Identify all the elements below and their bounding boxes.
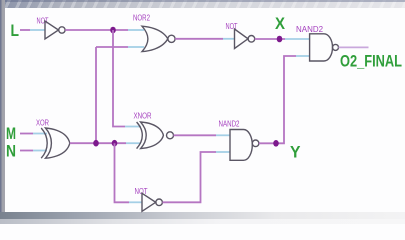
pin stub NAND2 mid top input [216,134,230,136]
svg-text:NAND2: NAND2 [219,119,240,129]
pin stub NAND2 mid bottom input [216,151,230,153]
window left strip [0,0,5,213]
svg-text:NOT: NOT [37,16,49,26]
wire NOR2 out to NOT U3 [175,38,223,40]
xor gate U4 (XOR) leading arc [41,128,47,158]
pin stub NOR2 bottom input [128,46,144,48]
wire node A: U1 out to NOR2 [65,29,128,31]
junction node B2 [112,140,118,147]
window bottom band [0,212,405,219]
svg-text:X: X [275,15,285,33]
pin stub U7 bottom input [296,55,310,57]
wire node Y: U5m out [259,56,296,143]
inverter U6 (NOT bottom) [142,193,156,211]
svg-text:L: L [11,22,20,40]
junction node X [277,36,283,43]
nand gate U7 (NAND2 output) [310,34,333,61]
xor gate U4 body [46,128,70,158]
pin stub XOR top input [33,133,47,135]
svg-text:XNOR: XNOR [134,111,152,121]
svg-text:NOT: NOT [135,186,148,196]
wire node X: U3 out to NAND2 U7 [255,38,285,40]
wire U6 out up to NAND2 mid bottom input [162,152,216,202]
svg-text:NAND2: NAND2 [296,24,323,34]
pin stub U1 input [30,29,45,31]
pin stub XNOR bottom input [126,142,141,144]
svg-text:XOR: XOR [36,118,49,128]
junction node Y [273,140,279,147]
wire NOR2 bottom input from node B [96,46,128,48]
svg-text:O2_FINAL: O2_FINAL [340,53,402,71]
wire node B: XOR out to XNOR [70,142,126,144]
inverter U3 (NOT) [235,29,249,49]
pin stub XNOR top input [125,126,141,128]
pin stub U6 input [129,201,142,203]
nor gate U2 (NOR2) [142,26,168,51]
wire node B vertical down to NOT U6 [115,143,130,202]
wire N to XOR [20,150,33,152]
nand gate U5m (NAND2 middle) [230,130,252,161]
svg-text:N: N [6,143,16,161]
pin stub XOR bottom input [33,150,47,152]
junction node A [110,27,116,34]
pin stub NOR2 top input [128,29,144,31]
xnor gate U5 body [141,122,164,149]
svg-text:M: M [6,125,16,143]
wire M to XOR [20,133,33,135]
inverter U1 (NOT) [45,21,59,39]
wire XNOR out to NAND2 U5m [174,134,217,136]
svg-text:Y: Y [290,144,301,162]
wire L to NOT U1 input [20,29,30,31]
wire O2_FINAL output [339,46,369,48]
junction node B1 [93,140,99,147]
wire node A vertical to XNOR [113,30,125,127]
window top band [0,0,405,8]
pin stub U3 input [223,38,235,40]
pin stub U7 top input [285,38,310,40]
xnor gate U5 (XNOR) leading arc [137,122,143,149]
wire node B vertical up [95,47,97,143]
svg-text:NOR2: NOR2 [133,13,150,23]
